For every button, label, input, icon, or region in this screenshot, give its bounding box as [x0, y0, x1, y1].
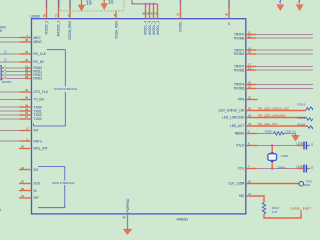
svg-text:15: 15: [310, 165, 313, 169]
svg-text:26: 26: [248, 107, 251, 111]
svg-text:38: 38: [142, 12, 145, 16]
pin stub S/P: [19, 197, 32, 199]
pin stub PPS: [246, 99, 258, 101]
svg-text:RN2000: RN2000: [2, 80, 12, 84]
power arrow symbol right: [101, 0, 108, 10]
svg-text:5: 5: [228, 22, 230, 26]
svg-text:PE_LED_LINK10_100: PE_LED_LINK10_100: [258, 107, 289, 111]
pin stub AVDDL_2: [153, 4, 155, 19]
svg-text:42: 42: [21, 180, 24, 184]
svg-text:34: 34: [25, 96, 28, 100]
svg-text:TXD3: TXD3: [34, 117, 42, 121]
svg-text:12: 12: [248, 34, 251, 38]
svg-text:R2020: R2020: [298, 123, 306, 127]
svg-text:20: 20: [248, 80, 251, 84]
junction dot AVDDL_4: [144, 3, 146, 5]
svg-text:41: 41: [248, 192, 251, 196]
chip U2000 body: [32, 19, 246, 214]
svg-text:15: 15: [248, 50, 251, 54]
svg-text:35: 35: [25, 111, 28, 115]
pin stub VDDH_REG: [115, 11, 117, 19]
svg-text:28: 28: [25, 75, 28, 79]
svg-text:40: 40: [225, 13, 228, 17]
wire MDIO net: [0, 41, 32, 43]
wire INT net: [0, 130, 32, 132]
wire RBIAS: [246, 133, 296, 135]
junction dot XTLO: [271, 144, 274, 147]
svg-text:U2000: U2000: [31, 15, 41, 19]
svg-text:22: 22: [248, 95, 251, 99]
wire TRXM2: [246, 69, 313, 71]
resistor R2019 zigzag: [306, 107, 313, 111]
svg-text:LED_LINK1000: LED_LINK1000: [222, 116, 244, 120]
svg-text:C2080: C2080: [296, 141, 304, 145]
resistor R2007 zigzag: [274, 132, 285, 136]
svg-text:TRXM2: TRXM2: [233, 68, 244, 72]
wire TXD2 net: [0, 114, 32, 116]
svg-text:39: 39: [146, 12, 149, 16]
pin stub AVDDIO_1: [58, 0, 60, 19]
wire TXD3 net: [0, 118, 32, 120]
svg-text:29: 29: [25, 71, 28, 75]
svg-text:MO: MO: [239, 194, 245, 198]
svg-text:40: 40: [21, 145, 24, 149]
svg-text:15: 15: [310, 142, 313, 146]
svg-text:R020: R020: [304, 183, 311, 187]
wire TRXP2: [246, 66, 313, 68]
svg-text:XTLO: XTLO: [236, 144, 245, 148]
wire GTX_CLK net: [0, 91, 32, 93]
power arrow ground pad: [123, 229, 131, 234]
svg-text:45: 45: [21, 187, 24, 191]
wire RX_CLK net: [0, 53, 32, 55]
junction dot XTLI: [271, 167, 274, 170]
svg-text:38: 38: [25, 103, 28, 107]
svg-text:PE_LED_ACT: PE_LED_ACT: [258, 122, 278, 126]
wire crystal bottom lead: [271, 162, 273, 169]
wire LED_ACT: [246, 125, 308, 127]
wire LED_LINK10_100: [246, 110, 306, 112]
svg-text:26: 26: [248, 179, 251, 183]
wire TXD1 net: [0, 110, 32, 112]
junction dot AVDDL_2: [152, 3, 154, 5]
top pin vertical labels: [45, 20, 183, 39]
power filter dashed box: [60, 0, 124, 11]
pin stub VDDIO_REG: [69, 0, 71, 19]
pin stub SO: [19, 169, 32, 171]
svg-text:R2007: R2007: [265, 129, 273, 133]
svg-text:19: 19: [43, 14, 46, 18]
svg-text:CLK_125M: CLK_125M: [228, 182, 244, 186]
svg-text:XTLI: XTLI: [238, 167, 245, 171]
svg-text:C2081: C2081: [296, 165, 304, 169]
svg-text:TX_EN: TX_EN: [34, 98, 45, 102]
wire crystal top lead: [271, 146, 273, 153]
wire RX_DV net: [0, 61, 32, 63]
svg-text:10: 10: [108, 0, 114, 6]
svg-text:TRXM3: TRXM3: [233, 87, 244, 91]
wire TRXM1: [246, 53, 313, 55]
svg-text:MDC: MDC: [34, 36, 42, 40]
svg-text:RSTn: RSTn: [34, 139, 42, 143]
svg-text:18: 18: [248, 66, 251, 70]
pin stub AVDDL_1: [157, 4, 159, 19]
wire TRXP1: [246, 49, 313, 51]
svg-text:TRXM1: TRXM1: [233, 52, 244, 56]
svg-text:15: 15: [86, 0, 92, 6]
wire MDC net: [0, 37, 32, 39]
svg-text:14: 14: [248, 46, 251, 50]
svg-text:VDDIO_REG: VDDIO_REG: [68, 20, 72, 39]
svg-text:SGMII INTERFACE: SGMII INTERFACE: [52, 181, 75, 185]
svg-text:37: 37: [177, 13, 180, 17]
SGMII group bracket: [38, 167, 65, 208]
svg-text:40: 40: [150, 12, 153, 16]
pin stub WOL_INT: [19, 148, 32, 150]
resistor R2018 zigzag: [307, 118, 314, 121]
right pin labels: [219, 33, 245, 199]
svg-text:Y2000: Y2000: [281, 154, 289, 158]
wire pin41 to R2017: [246, 196, 264, 203]
wire LED_LINK1000: [246, 117, 307, 119]
svg-text:R2018: R2018: [298, 116, 306, 120]
svg-text:PE_LED_LINK1000: PE_LED_LINK1000: [258, 114, 286, 118]
svg-text:VDDIO_1: VDDIO_1: [45, 21, 49, 35]
svg-text:DVDDL: DVDDL: [179, 21, 183, 32]
junction dot AVDDL_3: [148, 3, 150, 5]
svg-text:RGMII INTERFACE: RGMII INTERFACE: [54, 87, 77, 91]
crystal Y2000: [268, 152, 277, 162]
top pin numbers: [43, 12, 229, 18]
svg-text:TP20: TP20: [306, 179, 313, 183]
svg-text:GTX_CLK: GTX_CLK: [34, 90, 49, 94]
power arrow RBIAS ground: [292, 134, 300, 142]
wire TRXP0: [246, 34, 313, 36]
pin stub AVDDL_3: [149, 4, 151, 19]
pin stub DVDDL: [180, 0, 182, 19]
wire RSTn net: [0, 140, 32, 142]
wire CLK_125M: [246, 183, 299, 185]
svg-text:RBIAS: RBIAS: [235, 132, 245, 136]
wire RXD0 net: [1, 67, 31, 69]
svg-text:48: 48: [25, 38, 28, 42]
svg-text:VDDH_REG: VDDH_REG: [114, 20, 118, 38]
svg-text:23: 23: [248, 122, 251, 126]
svg-text:TRXM0: TRXM0: [233, 36, 244, 40]
pin stub top-right: [228, 0, 230, 19]
svg-text:R2017: R2017: [272, 206, 280, 210]
pin stub VDDIO_1: [46, 0, 48, 19]
wire XTLO: [246, 145, 310, 147]
testpoint circle on CLK_125M: [299, 181, 304, 186]
power arrow top right A: [277, 0, 284, 11]
svg-text:R2019: R2019: [298, 103, 306, 107]
svg-text:17: 17: [248, 62, 251, 66]
svg-text:36: 36: [25, 88, 28, 92]
resistor pack RN2000 body: [0, 66, 2, 80]
wire RXD3 net: [1, 78, 31, 80]
pin stub AVDDL_4: [145, 4, 147, 19]
svg-text:PPS: PPS: [238, 98, 244, 102]
svg-text:RX_DV: RX_DV: [34, 60, 46, 64]
svg-text:AVDDIO_1: AVDDIO_1: [57, 21, 61, 37]
svg-text:17: 17: [55, 14, 58, 18]
wire TXD0 net: [0, 106, 32, 108]
wire TX_EN net: [0, 99, 32, 101]
resistor R2020 zigzag: [308, 126, 314, 129]
svg-text:LED_ACT: LED_ACT: [230, 124, 244, 128]
svg-text:S/P: S/P: [34, 196, 39, 200]
RGMII group bracket: [34, 50, 66, 126]
svg-text:24: 24: [248, 114, 251, 118]
svg-text:SO: SO: [34, 168, 39, 172]
wire TRXM3: [246, 88, 313, 90]
svg-text:MDIO: MDIO: [34, 40, 43, 44]
svg-text:DVDDL_ENET: DVDDL_ENET: [291, 206, 312, 210]
capacitor C2080: [304, 142, 306, 150]
svg-text:49: 49: [122, 216, 125, 220]
svg-text:2.32K 1%: 2.32K 1%: [285, 129, 297, 133]
svg-text:AR8031: AR8031: [177, 218, 189, 222]
svg-text:LED_LINK10_100: LED_LINK10_100: [219, 109, 245, 113]
wire AVDDL power rail: [132, 0, 158, 4]
svg-text:41: 41: [154, 12, 157, 16]
svg-text:43: 43: [21, 166, 24, 170]
svg-text:SCK: SCK: [34, 182, 41, 186]
svg-text:32: 32: [25, 58, 28, 62]
wire TRXM0: [246, 37, 313, 39]
power arrow top right B: [296, 0, 303, 11]
pin stub SCK: [19, 183, 32, 185]
resistor R2017 zigzag: [262, 203, 265, 214]
svg-text:30: 30: [25, 68, 28, 72]
net label tick: [300, 210, 302, 213]
svg-text:RX_CLK: RX_CLK: [34, 52, 47, 56]
svg-text:WOL_INT: WOL_INT: [34, 147, 48, 151]
svg-text:SI: SI: [34, 189, 37, 193]
wire RXD2 net: [1, 74, 31, 76]
svg-text:39: 39: [25, 107, 28, 111]
wire R2017 to DVDDL_ENET: [264, 213, 301, 218]
svg-text:4.7K: 4.7K: [272, 210, 278, 214]
svg-text:37: 37: [25, 115, 28, 119]
pin stub SI: [19, 190, 32, 192]
svg-text:RXD3: RXD3: [34, 77, 43, 81]
capacitor C2081: [304, 165, 306, 173]
svg-text:33: 33: [25, 50, 28, 54]
svg-text:21: 21: [248, 85, 251, 89]
svg-text:INT: INT: [34, 129, 39, 133]
wire GND pad: [127, 214, 129, 230]
wire XTLI: [246, 168, 310, 170]
svg-text:31: 31: [25, 64, 28, 68]
svg-text:25MHz: 25MHz: [277, 165, 286, 169]
right pin numbers: [248, 30, 251, 196]
wire RXD1 net: [1, 71, 31, 73]
wire TRXP3: [246, 84, 313, 86]
svg-text:PWRPAD: PWRPAD: [126, 198, 130, 212]
power arrow symbol left: [78, 0, 85, 11]
svg-text:AVDDL_1: AVDDL_1: [156, 21, 160, 35]
svg-text:44: 44: [21, 194, 24, 198]
